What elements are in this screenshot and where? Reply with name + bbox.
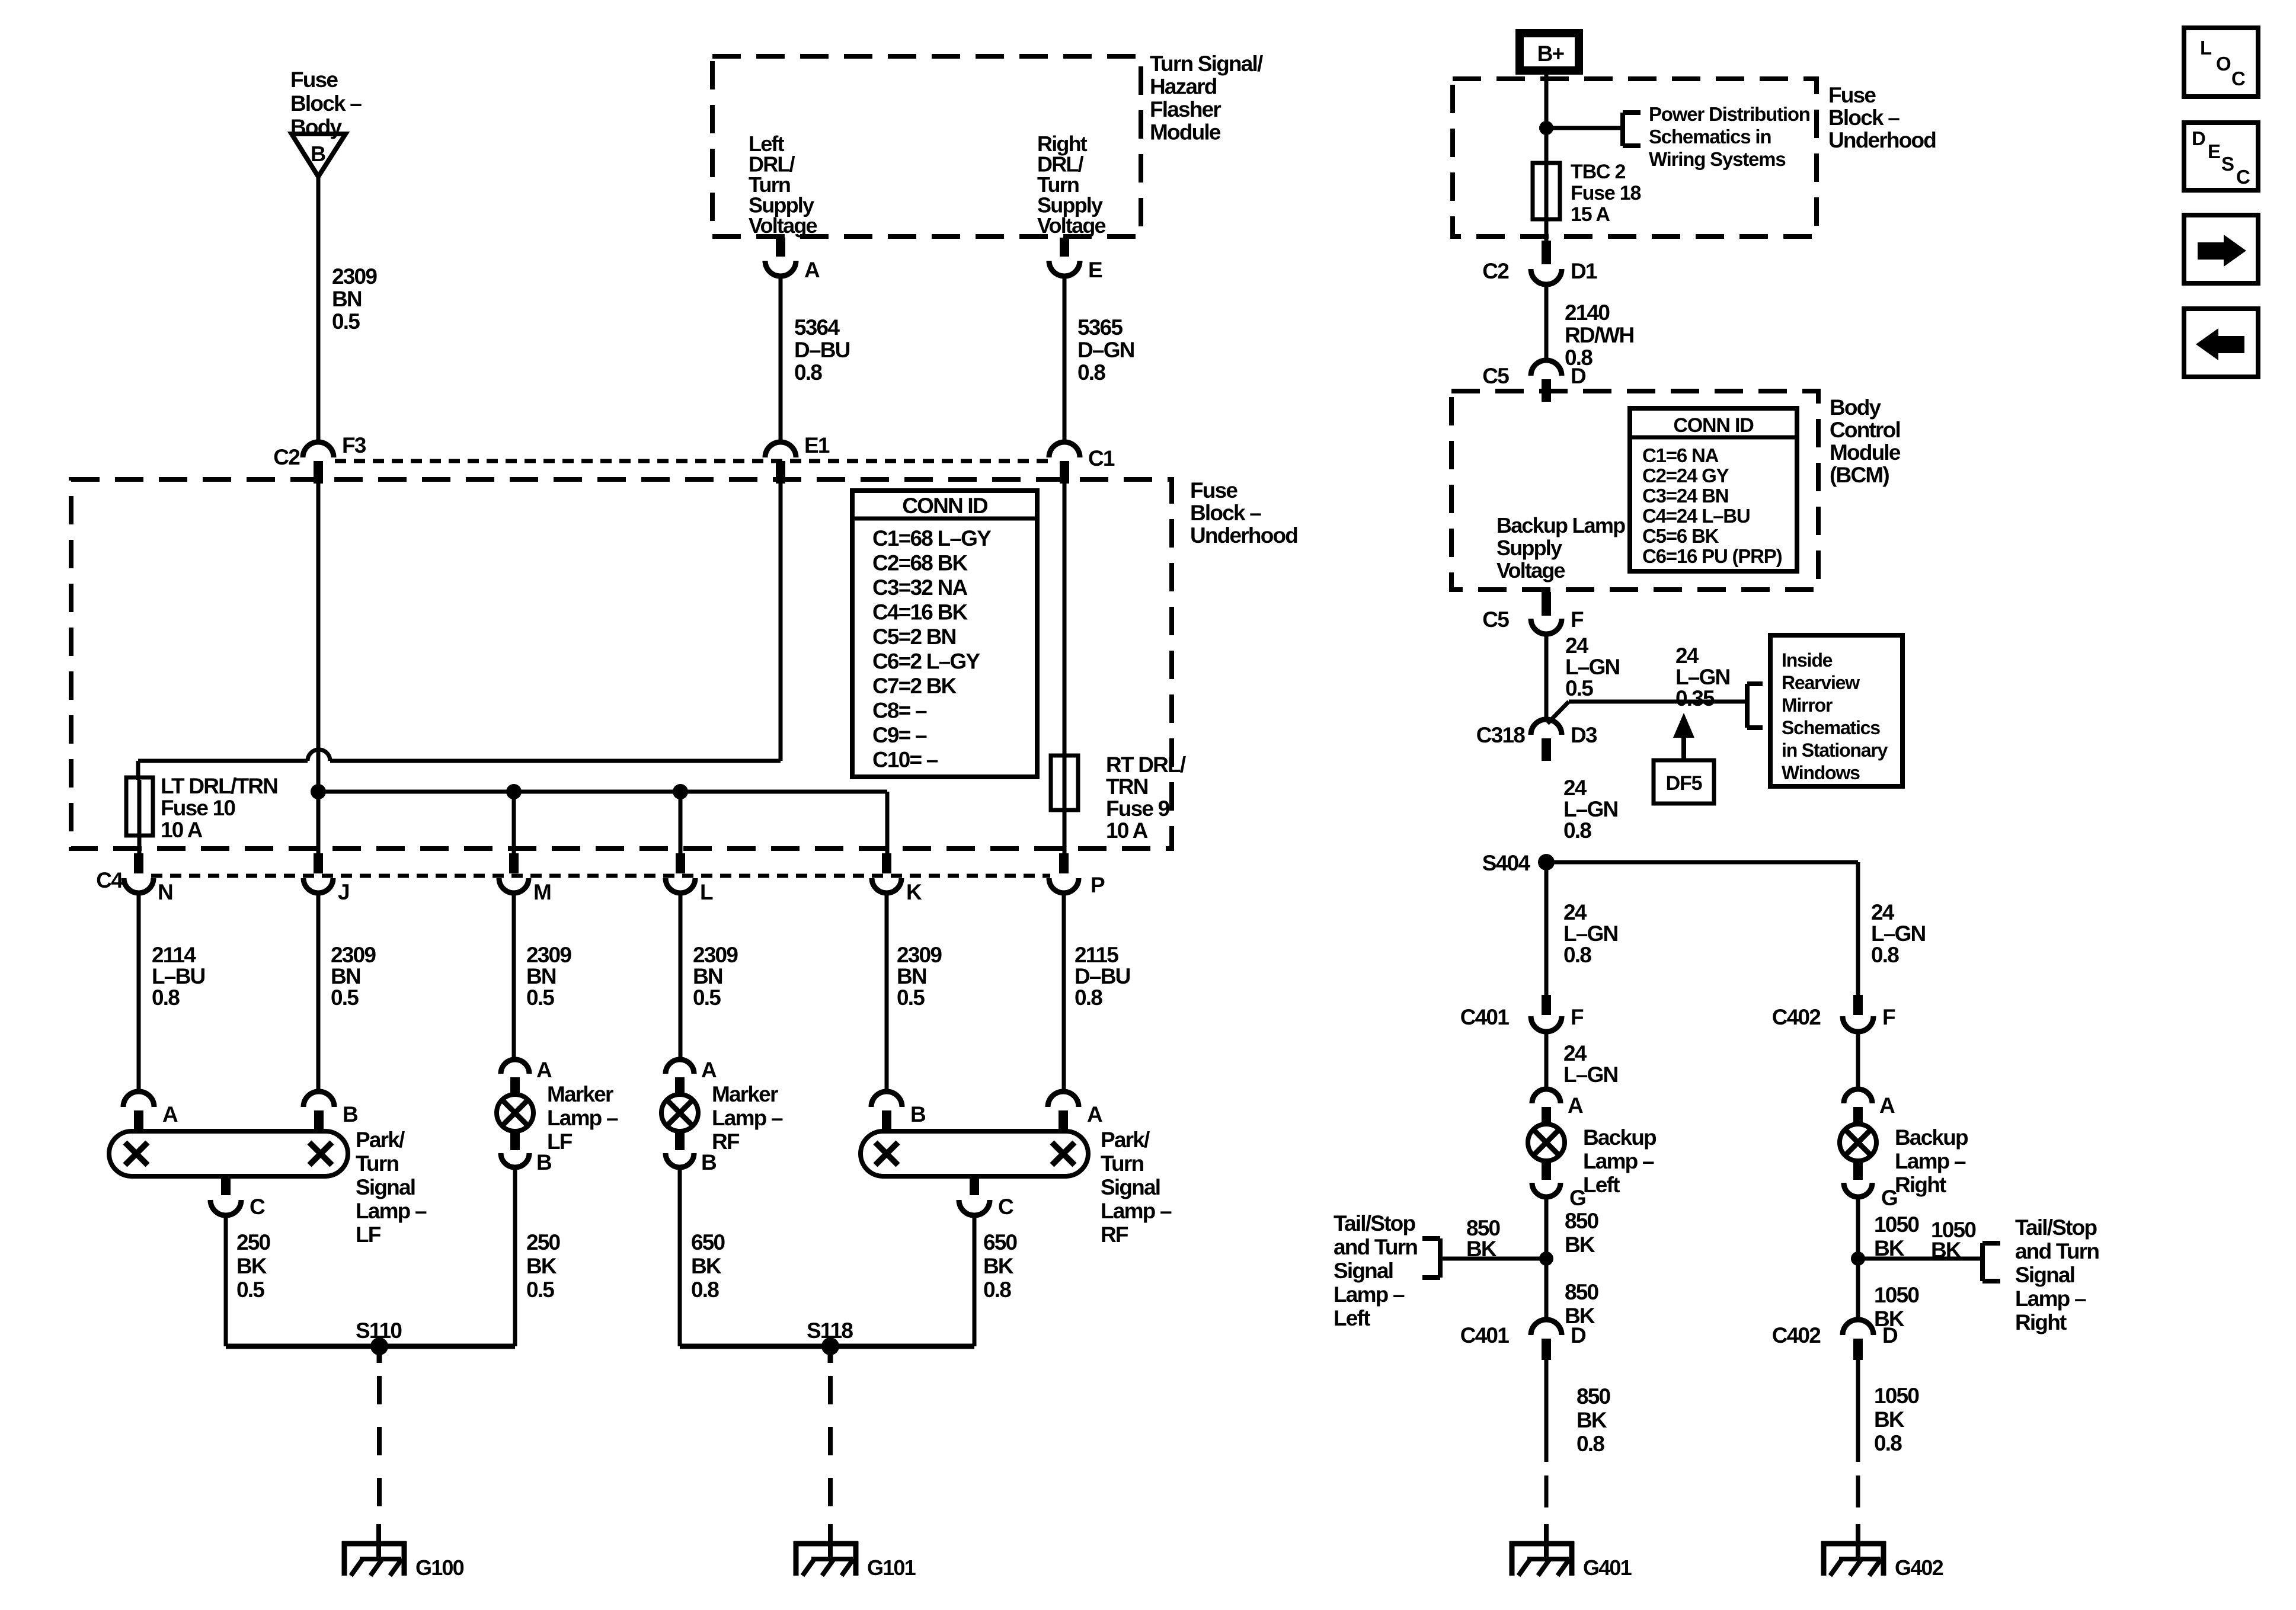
connector C4 pin N bbox=[96, 853, 172, 904]
label Fuse Block - Underhood (left) bbox=[1190, 478, 1297, 548]
label 24 L-GN 0.35 bbox=[1675, 644, 1730, 710]
svg-text:0.8: 0.8 bbox=[1563, 818, 1591, 843]
svg-text:0.5: 0.5 bbox=[693, 985, 721, 1010]
label LT DRL/TRN Fuse 10 10 A bbox=[161, 774, 277, 842]
svg-text:Fuse 9: Fuse 9 bbox=[1106, 796, 1170, 821]
callout bracket (tail/stop right) bbox=[1982, 1243, 2000, 1281]
svg-text:Rearview: Rearview bbox=[1782, 672, 1860, 693]
label Body Control Module (BCM) bbox=[1830, 395, 1901, 487]
svg-text:L–BU: L–BU bbox=[152, 964, 204, 988]
svg-text:D: D bbox=[1571, 1323, 1586, 1347]
svg-text:BK: BK bbox=[983, 1254, 1014, 1278]
svg-text:BK: BK bbox=[1931, 1238, 1962, 1262]
connector pin C (park/turn RF) bbox=[959, 1176, 1013, 1219]
label 850 BK (above junction left) bbox=[1565, 1209, 1599, 1257]
fuse TBC 2 Fuse 18 15A bbox=[1533, 163, 1560, 243]
label Marker Lamp - RF bbox=[712, 1082, 783, 1154]
svg-text:Turn: Turn bbox=[1101, 1151, 1143, 1176]
svg-text:Underhood: Underhood bbox=[1828, 128, 1936, 152]
svg-text:Voltage: Voltage bbox=[1037, 213, 1106, 238]
svg-text:Lamp –: Lamp – bbox=[1583, 1149, 1654, 1173]
Inside Rearview Mirror Schematics box bbox=[1770, 635, 1902, 786]
svg-text:BK: BK bbox=[1576, 1408, 1607, 1432]
label S118 bbox=[807, 1318, 853, 1343]
arrow to DF5 bbox=[1673, 713, 1694, 760]
svg-text:A: A bbox=[162, 1102, 178, 1126]
wire 2309 BN from triangle B to C2/F3 bbox=[316, 177, 321, 442]
svg-text:and Turn: and Turn bbox=[1334, 1235, 1417, 1259]
ground G101 bbox=[794, 1524, 916, 1580]
left fuse block CONN ID table bbox=[852, 491, 1037, 777]
backup lamp left bbox=[1528, 1124, 1565, 1161]
svg-text:L–GN: L–GN bbox=[1563, 1062, 1618, 1087]
connector C402 pin F bbox=[1772, 995, 1895, 1032]
svg-text:A: A bbox=[1568, 1093, 1583, 1118]
svg-text:2309: 2309 bbox=[332, 264, 377, 289]
svg-text:D–BU: D–BU bbox=[794, 338, 850, 362]
svg-text:BN: BN bbox=[332, 287, 362, 311]
svg-text:Backup Lamp: Backup Lamp bbox=[1496, 513, 1625, 537]
svg-text:C1: C1 bbox=[1088, 446, 1115, 470]
label Marker Lamp - LF bbox=[547, 1082, 618, 1154]
svg-text:C2: C2 bbox=[273, 445, 300, 469]
wire backup right to C402 D bbox=[1851, 1197, 1865, 1320]
svg-text:BN: BN bbox=[693, 964, 722, 988]
label 850 BK (tail/stop feed left) bbox=[1466, 1216, 1501, 1261]
svg-text:2309: 2309 bbox=[331, 943, 376, 967]
connector pin K bbox=[872, 853, 922, 904]
svg-text:TBC 2: TBC 2 bbox=[1571, 161, 1626, 183]
svg-text:Lamp –: Lamp – bbox=[1334, 1282, 1405, 1307]
svg-text:E: E bbox=[1088, 258, 1102, 282]
svg-text:B+: B+ bbox=[1537, 41, 1565, 66]
svg-text:RF: RF bbox=[1101, 1222, 1128, 1247]
label 24 L-GN (left) bbox=[1563, 1041, 1618, 1087]
svg-text:BN: BN bbox=[897, 964, 926, 988]
svg-text:C5=6 BK: C5=6 BK bbox=[1642, 525, 1719, 547]
svg-text:C402: C402 bbox=[1772, 1005, 1821, 1029]
label 2140 RD/WH 0.8 bbox=[1565, 300, 1633, 370]
svg-text:1050: 1050 bbox=[1874, 1384, 1919, 1408]
svg-text:0.8: 0.8 bbox=[152, 985, 180, 1010]
svg-text:850: 850 bbox=[1565, 1209, 1599, 1233]
svg-text:Underhood: Underhood bbox=[1190, 523, 1297, 548]
svg-text:0.35: 0.35 bbox=[1675, 686, 1715, 710]
svg-text:Turn Signal/: Turn Signal/ bbox=[1150, 52, 1263, 76]
svg-text:650: 650 bbox=[983, 1230, 1018, 1254]
label 650 BK 0.8 (RF) bbox=[983, 1230, 1018, 1302]
svg-text:D: D bbox=[1882, 1323, 1898, 1347]
label 850 BK 0.8 bbox=[1576, 1384, 1611, 1456]
label 1050 BK (below junction right) bbox=[1874, 1283, 1919, 1331]
svg-text:C4=24 L–BU: C4=24 L–BU bbox=[1642, 505, 1750, 527]
svg-text:0.5: 0.5 bbox=[236, 1278, 264, 1302]
svg-text:Right: Right bbox=[2015, 1310, 2067, 1334]
splice S404 bbox=[1482, 851, 1555, 875]
svg-text:250: 250 bbox=[236, 1230, 271, 1254]
svg-text:BK: BK bbox=[1874, 1407, 1905, 1432]
svg-text:24: 24 bbox=[1563, 1041, 1587, 1065]
svg-text:650: 650 bbox=[691, 1230, 725, 1254]
svg-text:0.8: 0.8 bbox=[1874, 1431, 1902, 1455]
svg-text:M: M bbox=[533, 880, 551, 904]
svg-text:E1: E1 bbox=[804, 433, 830, 457]
svg-text:1050: 1050 bbox=[1874, 1283, 1919, 1307]
wire J branch (2309 BN) bbox=[316, 894, 321, 1093]
svg-text:Fuse 18: Fuse 18 bbox=[1571, 182, 1641, 204]
label 2114 L-BU 0.8 bbox=[152, 943, 204, 1010]
wire P branch (2115 D-BU) bbox=[1062, 894, 1066, 1093]
label 24 L-GN 0.8 (left of S404) bbox=[1563, 900, 1618, 967]
svg-text:15 A: 15 A bbox=[1571, 203, 1610, 226]
wire 5365 D-GN (E to C1) bbox=[1063, 276, 1067, 441]
svg-text:Voltage: Voltage bbox=[1496, 558, 1565, 582]
svg-text:BK: BK bbox=[236, 1254, 267, 1278]
svg-text:Power Distribution: Power Distribution bbox=[1649, 103, 1810, 125]
wire from E1 down to fuse 10 feed bbox=[779, 484, 783, 761]
svg-text:A: A bbox=[1879, 1093, 1895, 1118]
svg-text:B: B bbox=[910, 1102, 926, 1126]
connector pin A (backup right) bbox=[1844, 1089, 1895, 1125]
svg-text:C1=6 NA: C1=6 NA bbox=[1642, 444, 1719, 466]
svg-text:(BCM): (BCM) bbox=[1830, 463, 1889, 487]
svg-text:Fuse: Fuse bbox=[1190, 478, 1237, 502]
BCM CONN ID table bbox=[1630, 408, 1797, 571]
wire 24 L-GN to backup left bbox=[1544, 1032, 1549, 1092]
svg-text:C2=24 GY: C2=24 GY bbox=[1642, 465, 1729, 486]
svg-text:C5=2 BN: C5=2 BN bbox=[872, 625, 956, 649]
svg-text:D: D bbox=[2192, 127, 2205, 149]
svg-text:Backup: Backup bbox=[1895, 1125, 1968, 1150]
wire branch to inside rearview mirror bbox=[1547, 702, 1747, 724]
svg-text:2309: 2309 bbox=[693, 943, 738, 967]
backup lamp right bbox=[1840, 1124, 1876, 1161]
wire S118 to G101 (dashed) bbox=[828, 1376, 833, 1523]
label 2309 BN 0.5 (J) bbox=[331, 943, 376, 1010]
svg-text:Marker: Marker bbox=[547, 1082, 613, 1106]
label Right DRL/Turn Supply Voltage bbox=[1037, 132, 1106, 238]
svg-text:250: 250 bbox=[526, 1230, 561, 1254]
svg-text:Backup: Backup bbox=[1583, 1125, 1657, 1150]
wire to power distribution callout bbox=[1546, 126, 1623, 130]
svg-text:C5: C5 bbox=[1482, 364, 1509, 388]
svg-text:Body: Body bbox=[1830, 395, 1882, 420]
svg-text:O: O bbox=[2216, 53, 2231, 75]
svg-text:BK: BK bbox=[1466, 1237, 1497, 1261]
svg-text:A: A bbox=[804, 258, 820, 282]
svg-text:G402: G402 bbox=[1895, 1555, 1943, 1580]
svg-text:Mirror: Mirror bbox=[1782, 694, 1833, 716]
wire 2140 RD/WH bbox=[1544, 284, 1549, 363]
svg-text:C2=68 BK: C2=68 BK bbox=[872, 551, 968, 575]
connector pin B (park/turn RF) bbox=[871, 1092, 926, 1132]
svg-text:Fuse 10: Fuse 10 bbox=[161, 796, 235, 820]
svg-text:Signal: Signal bbox=[2015, 1263, 2074, 1287]
svg-text:2309: 2309 bbox=[897, 943, 942, 967]
wire 650 BK from marker RF bbox=[678, 1167, 682, 1346]
connector row line (C2-C1) bbox=[335, 459, 1049, 463]
svg-text:0.5: 0.5 bbox=[526, 985, 554, 1010]
svg-text:C4=16 BK: C4=16 BK bbox=[872, 600, 968, 625]
svg-text:Turn: Turn bbox=[356, 1151, 398, 1176]
wire 5364 D-BU (A to E1) bbox=[779, 276, 783, 442]
ground G402 bbox=[1821, 1524, 1943, 1580]
svg-text:D3: D3 bbox=[1571, 723, 1597, 747]
svg-text:L–GN: L–GN bbox=[1675, 665, 1730, 689]
DESC legend box bbox=[2184, 123, 2258, 190]
label 2309 BN 0.5 (L) bbox=[693, 943, 738, 1010]
svg-text:C10= –: C10= – bbox=[872, 748, 938, 772]
LOC legend box bbox=[2184, 28, 2258, 97]
svg-text:G100: G100 bbox=[415, 1555, 464, 1580]
svg-text:24: 24 bbox=[1675, 644, 1699, 668]
svg-text:0.8: 0.8 bbox=[1077, 360, 1105, 385]
svg-text:0.5: 0.5 bbox=[526, 1278, 554, 1302]
label 850 BK (below junction left) bbox=[1565, 1280, 1599, 1328]
svg-text:D–BU: D–BU bbox=[1075, 964, 1130, 988]
svg-text:G: G bbox=[1569, 1186, 1585, 1210]
Body Control Module box bbox=[1451, 391, 1818, 590]
label 1050 BK (above junction right) bbox=[1874, 1212, 1919, 1260]
svg-text:LF: LF bbox=[356, 1222, 381, 1247]
svg-text:Tail/Stop: Tail/Stop bbox=[2015, 1215, 2097, 1240]
wire M branch (2309 BN) bbox=[512, 894, 516, 1060]
callout bracket (tail/stop left) bbox=[1422, 1238, 1440, 1278]
wire C2/F3 down to junction and J bbox=[316, 484, 321, 854]
svg-text:Lamp –: Lamp – bbox=[547, 1106, 618, 1130]
Turn Signal/Hazard Flasher Module box bbox=[712, 56, 1141, 236]
svg-text:and Turn: and Turn bbox=[2015, 1239, 2099, 1263]
ground G401 bbox=[1510, 1524, 1632, 1580]
connector pin G (backup right) bbox=[1844, 1161, 1897, 1210]
svg-text:Lamp –: Lamp – bbox=[2015, 1286, 2086, 1311]
svg-text:C1=68 L–GY: C1=68 L–GY bbox=[872, 526, 992, 550]
svg-text:24: 24 bbox=[1563, 776, 1587, 800]
svg-text:0.8: 0.8 bbox=[1576, 1432, 1604, 1456]
fuse RT DRL/TRN Fuse 9 10A bbox=[1051, 756, 1078, 854]
svg-text:Left: Left bbox=[1583, 1173, 1620, 1197]
svg-text:F: F bbox=[1571, 607, 1584, 632]
svg-text:0.8: 0.8 bbox=[983, 1278, 1011, 1302]
label Backup Lamp Supply Voltage bbox=[1496, 513, 1625, 582]
svg-text:B: B bbox=[701, 1150, 717, 1174]
grid reference DF5 bbox=[1654, 760, 1714, 804]
connector pin G (backup left) bbox=[1532, 1161, 1585, 1210]
label Park/Turn Signal Lamp - RF bbox=[1101, 1128, 1172, 1247]
marker lamp RF bbox=[661, 1094, 698, 1131]
distribution bus from J junction to K bbox=[311, 784, 887, 854]
svg-text:J: J bbox=[338, 880, 349, 904]
label 24 L-GN 0.5 bbox=[1565, 633, 1620, 700]
wire 1050 BK 0.8 to G402 bbox=[1856, 1360, 1860, 1523]
svg-text:L–GN: L–GN bbox=[1565, 655, 1620, 679]
svg-text:0.8: 0.8 bbox=[1075, 985, 1102, 1010]
svg-text:CONN ID: CONN ID bbox=[902, 494, 988, 518]
label 2309 BN 0.5 bbox=[332, 264, 377, 334]
svg-text:24: 24 bbox=[1563, 900, 1587, 924]
svg-text:Block –: Block – bbox=[290, 91, 362, 116]
svg-text:S: S bbox=[2221, 153, 2234, 175]
svg-text:Marker: Marker bbox=[712, 1082, 778, 1106]
ground G100 bbox=[342, 1524, 464, 1580]
svg-text:RT DRL/: RT DRL/ bbox=[1106, 753, 1186, 777]
label Tail/Stop and Turn Signal Lamp - Right bbox=[2015, 1215, 2099, 1334]
svg-text:B: B bbox=[343, 1102, 358, 1126]
connector pin L bbox=[666, 853, 713, 904]
svg-text:Module: Module bbox=[1830, 440, 1901, 465]
svg-text:S110: S110 bbox=[356, 1318, 402, 1343]
label 2115 D-BU 0.8 bbox=[1075, 943, 1130, 1010]
svg-text:RD/WH: RD/WH bbox=[1565, 323, 1633, 347]
svg-text:C: C bbox=[250, 1195, 265, 1219]
connector E1 bbox=[765, 433, 830, 484]
callout bracket (power distribution) bbox=[1623, 113, 1641, 146]
svg-text:D1: D1 bbox=[1571, 259, 1597, 283]
svg-text:G: G bbox=[1881, 1186, 1897, 1210]
svg-text:C8= –: C8= – bbox=[872, 699, 927, 723]
wire S110 to G100 (dashed) bbox=[377, 1376, 382, 1523]
svg-text:DF5: DF5 bbox=[1666, 772, 1702, 795]
svg-text:Lamp –: Lamp – bbox=[1101, 1199, 1172, 1223]
connector pin B (park/turn LF) bbox=[303, 1092, 358, 1132]
label 24 L-GN 0.8 (right branch) bbox=[1871, 900, 1926, 967]
svg-text:Tail/Stop: Tail/Stop bbox=[1334, 1211, 1415, 1235]
svg-text:2114: 2114 bbox=[152, 943, 196, 967]
label 1050 BK (tail/stop feed right) bbox=[1931, 1218, 1976, 1262]
label Tail/Stop and Turn Signal Lamp - Left bbox=[1334, 1211, 1417, 1330]
svg-text:C3=32 NA: C3=32 NA bbox=[872, 575, 967, 600]
forward arrow box bbox=[2184, 215, 2258, 283]
svg-text:Signal: Signal bbox=[356, 1175, 415, 1199]
svg-text:0.8: 0.8 bbox=[1871, 943, 1899, 967]
wire splice bus S110 bbox=[226, 1167, 515, 1363]
connector C401 pin D bbox=[1460, 1320, 1586, 1360]
svg-text:5364: 5364 bbox=[794, 315, 840, 340]
svg-text:TRN: TRN bbox=[1106, 774, 1148, 799]
svg-text:G401: G401 bbox=[1583, 1555, 1632, 1580]
svg-text:C401: C401 bbox=[1460, 1323, 1509, 1347]
svg-text:2140: 2140 bbox=[1565, 300, 1610, 325]
svg-text:BK: BK bbox=[691, 1254, 722, 1278]
svg-text:Left: Left bbox=[1334, 1306, 1370, 1330]
wire S404 down to C401 bbox=[1544, 862, 1549, 1000]
svg-text:C7=2 BK: C7=2 BK bbox=[872, 674, 957, 698]
svg-text:K: K bbox=[906, 880, 922, 904]
svg-text:C: C bbox=[2231, 68, 2245, 89]
svg-text:F: F bbox=[1882, 1005, 1895, 1029]
Fuse Block - Underhood box (left) bbox=[71, 479, 1172, 849]
svg-text:A: A bbox=[701, 1058, 717, 1082]
connector pin C (park/turn LF) bbox=[210, 1176, 265, 1219]
svg-text:2115: 2115 bbox=[1075, 943, 1118, 967]
svg-text:Block –: Block – bbox=[1190, 501, 1261, 525]
svg-text:Block –: Block – bbox=[1828, 105, 1900, 130]
svg-text:C6=2 L–GY: C6=2 L–GY bbox=[872, 649, 980, 674]
label 1050 BK 0.8 bbox=[1874, 1384, 1919, 1455]
svg-text:C: C bbox=[2236, 166, 2250, 188]
svg-text:0.8: 0.8 bbox=[794, 360, 822, 385]
label 250 BK 0.5 (marker LF) bbox=[526, 1230, 561, 1302]
connector C5 pin D bbox=[1482, 360, 1586, 402]
fuse LT DRL/TRN Fuse 10 10A bbox=[126, 777, 153, 854]
svg-text:24: 24 bbox=[1565, 633, 1589, 658]
label 5364 D-BU 0.8 bbox=[794, 315, 850, 385]
svg-text:BN: BN bbox=[526, 964, 556, 988]
svg-text:Fuse: Fuse bbox=[1828, 83, 1876, 107]
label 650 BK 0.8 (marker RF) bbox=[691, 1230, 725, 1302]
svg-text:0.8: 0.8 bbox=[1563, 943, 1591, 967]
wire splice bus S118 bbox=[680, 1337, 974, 1363]
svg-text:Lamp –: Lamp – bbox=[712, 1106, 783, 1130]
connector pin A (park/turn LF) bbox=[123, 1092, 178, 1132]
wire C5/F down to C318 bbox=[1544, 634, 1549, 721]
wire 250 BK from LF lamp C bbox=[224, 1215, 228, 1346]
svg-text:L–GN: L–GN bbox=[1563, 797, 1618, 821]
label Left DRL/Turn Supply Voltage bbox=[749, 132, 817, 238]
svg-text:C318: C318 bbox=[1476, 723, 1525, 747]
connector pin J bbox=[303, 853, 349, 904]
svg-text:2309: 2309 bbox=[526, 943, 571, 967]
svg-text:in Stationary: in Stationary bbox=[1782, 740, 1888, 761]
svg-text:Right: Right bbox=[1895, 1173, 1946, 1197]
svg-text:C3=24 BN: C3=24 BN bbox=[1642, 485, 1728, 507]
wire S404 to right backup lamp bbox=[1546, 862, 1858, 1003]
svg-text:5365: 5365 bbox=[1077, 315, 1123, 340]
svg-text:P: P bbox=[1091, 873, 1105, 897]
connector pin M bbox=[499, 853, 551, 904]
svg-text:0.8: 0.8 bbox=[691, 1278, 719, 1302]
connector C402 pin D bbox=[1772, 1320, 1898, 1360]
wire L branch inside fuse block bbox=[679, 792, 683, 854]
wire 850 BK 0.8 to G401 bbox=[1544, 1360, 1549, 1523]
connector C2 pin D1 bbox=[1482, 241, 1597, 284]
label Fuse Block - Underhood (right) bbox=[1828, 83, 1936, 152]
wire 250 BK from marker LF bbox=[513, 1167, 517, 1346]
svg-text:Signal: Signal bbox=[1334, 1259, 1393, 1283]
label 2309 BN 0.5 (M) bbox=[526, 943, 571, 1010]
connector row line (C4..P) bbox=[151, 874, 1050, 878]
connector C5 pin F bbox=[1482, 592, 1584, 634]
wire M branch inside fuse block bbox=[512, 792, 516, 854]
svg-text:C9= –: C9= – bbox=[872, 723, 927, 747]
connector pin A (backup left) bbox=[1532, 1089, 1583, 1125]
svg-text:C5: C5 bbox=[1482, 607, 1509, 632]
svg-text:0.5: 0.5 bbox=[897, 985, 925, 1010]
label Turn Signal/Hazard Flasher Module bbox=[1150, 52, 1263, 145]
wire to tail/stop lamp left bbox=[1440, 1257, 1546, 1261]
svg-text:Signal: Signal bbox=[1101, 1175, 1160, 1199]
svg-text:A: A bbox=[536, 1058, 552, 1082]
svg-text:Park/: Park/ bbox=[1101, 1128, 1150, 1152]
connector C401 pin F bbox=[1460, 995, 1584, 1032]
svg-text:B: B bbox=[311, 142, 325, 166]
wire to tail/stop lamp right bbox=[1858, 1257, 1982, 1261]
svg-text:F: F bbox=[1571, 1005, 1584, 1029]
svg-text:CONN ID: CONN ID bbox=[1673, 414, 1754, 437]
svg-text:0.5: 0.5 bbox=[331, 985, 359, 1010]
connector C2 pin F3 bbox=[273, 433, 366, 484]
svg-text:C4: C4 bbox=[96, 868, 123, 892]
connector pin P bbox=[1049, 853, 1105, 897]
svg-text:0.5: 0.5 bbox=[332, 309, 360, 334]
svg-text:Voltage: Voltage bbox=[749, 213, 817, 238]
label Fuse Block - Body bbox=[290, 68, 362, 139]
connector pin A (flasher module) bbox=[765, 238, 820, 282]
svg-text:Windows: Windows bbox=[1782, 762, 1860, 783]
label S110 bbox=[356, 1318, 402, 1343]
svg-text:Lamp –: Lamp – bbox=[1895, 1149, 1966, 1173]
svg-text:Control: Control bbox=[1830, 418, 1900, 442]
